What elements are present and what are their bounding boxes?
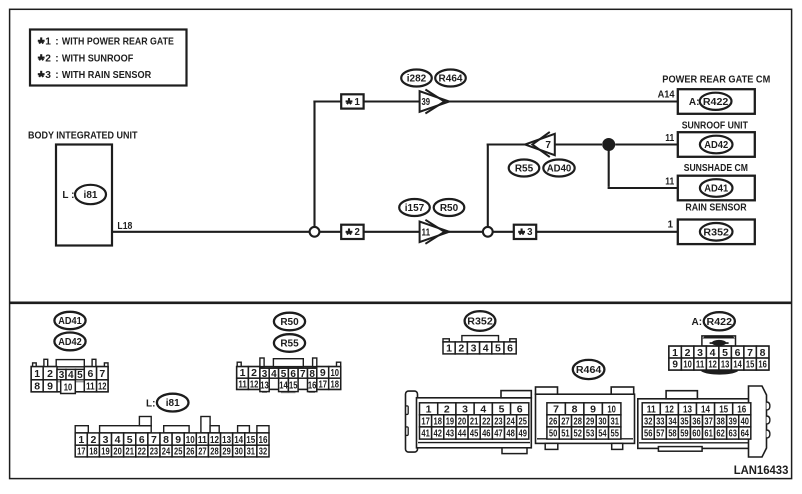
svg-text:5: 5	[127, 434, 133, 446]
svg-text:RAIN SENSOR: RAIN SENSOR	[685, 202, 747, 213]
connector labels R50 / R55 (pinout)	[274, 313, 305, 352]
option box *3	[514, 225, 536, 239]
solder joint (filled dot)	[602, 138, 615, 151]
svg-text:3: 3	[527, 227, 533, 238]
svg-text:2: 2	[444, 404, 450, 416]
svg-text:25: 25	[519, 417, 528, 428]
svg-text:WITH RAIN SENSOR: WITH RAIN SENSOR	[62, 70, 152, 81]
svg-text:5: 5	[495, 343, 501, 355]
wire branch from junction A up to option box *1	[313, 101, 341, 227]
svg-text:AD41: AD41	[704, 184, 728, 195]
svg-text:7: 7	[151, 434, 157, 446]
junction node A (open circle)	[310, 227, 320, 237]
svg-text:32: 32	[259, 447, 268, 458]
R464 block 1 pin row 1 (1-6)	[420, 403, 529, 416]
R50/R55 pin row 1	[237, 367, 341, 380]
AD41/AD42 pin row 1	[31, 367, 108, 382]
wire from gateway 39 to POWER REAR GATE CM pin A14	[449, 90, 678, 102]
svg-text:39: 39	[422, 97, 431, 108]
wire from junction B to option box *3	[493, 231, 514, 233]
svg-text:6: 6	[517, 404, 523, 416]
svg-text:AD40: AD40	[547, 164, 572, 175]
svg-text:29: 29	[222, 447, 231, 458]
svg-text:11: 11	[86, 381, 95, 393]
svg-text:63: 63	[729, 429, 738, 440]
connector label R422 (pinout)	[692, 312, 735, 330]
svg-text:13: 13	[721, 360, 730, 371]
svg-text:22: 22	[482, 417, 491, 428]
svg-text:33: 33	[656, 417, 665, 428]
svg-text:64: 64	[741, 429, 750, 440]
R422 pin row 2 (9-16)	[669, 358, 769, 371]
unit AD41: SUNSHADE CM	[678, 163, 755, 200]
i81 pin row 1 (1-16)	[75, 433, 269, 446]
svg-text:17: 17	[77, 447, 86, 458]
svg-text:R352: R352	[703, 227, 729, 238]
svg-text:5: 5	[722, 347, 728, 359]
R464 block 1 pin row 3 (41-49)	[420, 427, 529, 440]
unit R422: POWER REAR GATE CM	[662, 74, 770, 113]
svg-text:14: 14	[279, 380, 288, 392]
svg-text:19: 19	[101, 447, 110, 458]
wire branch from junction B up to gateway 7	[487, 144, 525, 227]
svg-text:1: 1	[446, 343, 452, 355]
svg-text:21: 21	[126, 447, 135, 458]
svg-text:10: 10	[683, 360, 692, 371]
svg-text:43: 43	[446, 429, 455, 440]
svg-text:6: 6	[735, 347, 741, 359]
svg-text:10: 10	[607, 404, 616, 416]
svg-text:4: 4	[483, 343, 489, 355]
svg-text:14: 14	[701, 404, 710, 416]
wire from gateway 11 to junction B	[449, 231, 483, 233]
svg-text:13: 13	[683, 404, 692, 416]
option box *1	[341, 94, 363, 108]
svg-text:42: 42	[434, 429, 443, 440]
svg-text:34: 34	[668, 417, 677, 428]
svg-text::: :	[55, 37, 58, 48]
svg-text:51: 51	[561, 429, 570, 440]
svg-text:11: 11	[198, 434, 207, 446]
svg-text:24: 24	[506, 417, 515, 428]
svg-text:24: 24	[162, 447, 171, 458]
svg-text:22: 22	[138, 447, 147, 458]
svg-text:28: 28	[210, 447, 219, 458]
connector pinout R352 body	[443, 336, 516, 342]
svg-text:60: 60	[692, 429, 701, 440]
svg-text:5: 5	[499, 404, 505, 416]
svg-text:23: 23	[150, 447, 159, 458]
svg-text:4: 4	[480, 404, 486, 416]
svg-text:i81: i81	[84, 190, 98, 201]
svg-text:12: 12	[250, 379, 259, 391]
svg-text:48: 48	[506, 429, 515, 440]
svg-text:8: 8	[163, 434, 169, 446]
svg-text::: :	[55, 54, 58, 65]
svg-text:7: 7	[99, 368, 105, 380]
svg-text:AD42: AD42	[58, 337, 82, 348]
svg-text:17: 17	[421, 417, 430, 428]
svg-text:i81: i81	[166, 398, 180, 409]
gateway triangle 39	[420, 90, 450, 114]
svg-text:12: 12	[708, 360, 717, 371]
svg-text:37: 37	[704, 417, 713, 428]
wire from option box *3 to RAIN SENSOR pin 1	[536, 220, 678, 232]
svg-text:2: 2	[45, 54, 51, 65]
connector labels R55 / AD40	[509, 160, 575, 177]
svg-text:2: 2	[90, 434, 96, 446]
svg-text:1: 1	[426, 404, 432, 416]
svg-text:R55: R55	[280, 339, 299, 350]
svg-text:1: 1	[34, 368, 40, 380]
svg-text:28: 28	[574, 417, 583, 428]
svg-text:27: 27	[198, 447, 207, 458]
svg-text:1: 1	[667, 220, 673, 231]
unit AD42: SUNROOF UNIT	[678, 121, 755, 157]
option box *2	[341, 225, 363, 239]
wire from joint to SUNROOF UNIT pin 11	[615, 133, 678, 145]
svg-text:56: 56	[644, 429, 653, 440]
svg-text:3: 3	[462, 404, 468, 416]
svg-text:2: 2	[685, 347, 691, 359]
svg-text:14: 14	[234, 434, 243, 446]
svg-text:8: 8	[760, 347, 766, 359]
svg-text:BODY INTEGRATED UNIT: BODY INTEGRATED UNIT	[28, 131, 138, 142]
svg-text:13: 13	[222, 434, 231, 446]
unit R352: RAIN SENSOR	[678, 202, 755, 244]
svg-text:62: 62	[716, 429, 725, 440]
R464 block 2 pin row 3 (50-55)	[547, 427, 621, 440]
svg-text:9: 9	[47, 381, 53, 393]
unit i81: BODY INTEGRATED UNIT box	[28, 131, 138, 246]
svg-text:18: 18	[330, 379, 339, 391]
svg-text:30: 30	[235, 447, 244, 458]
svg-text:L18: L18	[117, 221, 132, 232]
R464 block 1 pin row 2 (17-25)	[420, 415, 529, 428]
R50/R55 pin row 2	[237, 378, 341, 393]
svg-text:4: 4	[271, 369, 277, 380]
svg-text:10: 10	[186, 434, 195, 446]
svg-text:18: 18	[89, 447, 98, 458]
svg-text:11: 11	[696, 360, 705, 371]
svg-text:2: 2	[251, 367, 257, 379]
svg-text:WITH POWER REAR GATE: WITH POWER REAR GATE	[62, 37, 174, 48]
connector labels i157 / R50	[399, 199, 464, 216]
connector label i81 (pinout)	[146, 394, 189, 412]
svg-text:32: 32	[644, 417, 653, 428]
svg-text:20: 20	[458, 417, 467, 428]
wire from junction A to option box *2	[320, 231, 341, 233]
connector pinout R464 shell	[406, 386, 770, 457]
R464 block 3 pin row 1 (11-16)	[642, 403, 751, 416]
gateway triangle 11	[420, 220, 450, 244]
gateway triangle 7 (pointing left)	[525, 132, 555, 157]
svg-text:7: 7	[300, 369, 306, 380]
section divider	[10, 301, 792, 304]
connector label R352 (pinout)	[465, 311, 496, 331]
svg-text:12: 12	[210, 434, 219, 446]
svg-text:40: 40	[741, 417, 750, 428]
svg-text:10: 10	[64, 381, 73, 393]
R464 block 3 pin row 3 (56-64)	[642, 427, 751, 440]
svg-text:8: 8	[34, 381, 40, 393]
svg-text:11: 11	[238, 379, 247, 391]
svg-text:58: 58	[668, 429, 677, 440]
svg-text:3: 3	[103, 434, 109, 446]
svg-text:1: 1	[78, 434, 84, 446]
svg-text:12: 12	[665, 404, 674, 416]
svg-text:i157: i157	[405, 203, 425, 214]
svg-text:31: 31	[611, 417, 620, 428]
svg-text:R50: R50	[280, 317, 299, 328]
svg-text:35: 35	[680, 417, 689, 428]
svg-text:13: 13	[260, 380, 269, 392]
svg-text:47: 47	[494, 429, 503, 440]
svg-text:12: 12	[98, 381, 107, 393]
svg-text:31: 31	[247, 447, 256, 458]
svg-text:9: 9	[590, 404, 596, 416]
wire L18 from i81 to junction A	[112, 221, 309, 232]
connector pinout R50/R55 body	[237, 358, 341, 389]
svg-text:50: 50	[549, 429, 558, 440]
svg-text:R464: R464	[439, 74, 463, 85]
R352 pin row (1-6)	[443, 342, 516, 355]
svg-text:4: 4	[115, 434, 121, 446]
svg-text:A:: A:	[689, 97, 700, 108]
svg-text:16: 16	[737, 404, 746, 416]
svg-text:30: 30	[598, 417, 607, 428]
svg-text:SUNROOF UNIT: SUNROOF UNIT	[682, 121, 748, 132]
connector pinout R422 lock tab	[702, 336, 736, 346]
connector pinout i81 top profile	[75, 417, 269, 433]
svg-text:20: 20	[113, 447, 122, 458]
svg-text:53: 53	[586, 429, 595, 440]
svg-text:6: 6	[87, 368, 93, 380]
svg-text:1: 1	[355, 97, 361, 108]
svg-text:3: 3	[471, 343, 477, 355]
svg-text:25: 25	[174, 447, 183, 458]
svg-text:8: 8	[572, 404, 578, 416]
svg-text:3: 3	[45, 70, 51, 81]
svg-text:29: 29	[586, 417, 595, 428]
connector pinout AD41/AD42 body	[31, 359, 108, 392]
svg-text:39: 39	[729, 417, 738, 428]
svg-text:4: 4	[710, 347, 716, 359]
svg-text:38: 38	[716, 417, 725, 428]
svg-text:LAN16433: LAN16433	[734, 465, 789, 477]
svg-text:6: 6	[139, 434, 145, 446]
svg-text:R422: R422	[703, 97, 729, 108]
svg-text:R422: R422	[707, 317, 733, 328]
legend box: option notes	[30, 30, 187, 86]
svg-text:7: 7	[747, 347, 753, 359]
svg-text:16: 16	[259, 434, 268, 446]
svg-text:15: 15	[289, 380, 298, 392]
wire from gateway 7 to solder joint	[555, 143, 602, 145]
svg-text:L :: L :	[62, 190, 74, 201]
R464 block 2 pin row 1 (7-10)	[547, 403, 621, 416]
svg-text::: :	[55, 70, 58, 81]
wire from option box *2 to gateway 11	[364, 231, 420, 233]
svg-text:41: 41	[421, 429, 430, 440]
svg-text:i282: i282	[407, 74, 427, 85]
svg-text:R352: R352	[467, 317, 493, 328]
svg-text:15: 15	[246, 434, 255, 446]
svg-text:1: 1	[45, 37, 51, 48]
svg-text:17: 17	[319, 379, 328, 391]
svg-text:9: 9	[320, 367, 326, 379]
svg-text:7: 7	[545, 140, 551, 151]
svg-text:23: 23	[494, 417, 503, 428]
svg-text:L:: L:	[146, 398, 155, 409]
svg-text:16: 16	[758, 360, 767, 371]
figure number LAN16433	[734, 465, 789, 477]
svg-text:1: 1	[240, 367, 246, 379]
connector label R464 (pinout)	[573, 360, 605, 379]
svg-text:10: 10	[330, 367, 339, 379]
svg-text:14: 14	[733, 360, 742, 371]
svg-text:11: 11	[647, 404, 656, 416]
connector labels i282 / R464	[401, 70, 466, 87]
svg-text:R55: R55	[515, 164, 534, 175]
svg-text:57: 57	[656, 429, 665, 440]
svg-text:6: 6	[507, 343, 513, 355]
junction node B (open circle)	[483, 227, 493, 237]
svg-text:15: 15	[746, 360, 755, 371]
svg-text:11: 11	[665, 133, 674, 144]
svg-text:AD42: AD42	[704, 140, 728, 151]
svg-text:26: 26	[549, 417, 558, 428]
svg-text:18: 18	[434, 417, 443, 428]
wire from joint down and to SUNSHADE CM pin 11	[608, 145, 678, 189]
svg-text:1: 1	[672, 347, 678, 359]
svg-text:5: 5	[77, 370, 83, 381]
svg-text:44: 44	[458, 429, 467, 440]
R464 block 2 pin row 2 (26-31)	[547, 415, 621, 428]
svg-text:3: 3	[697, 347, 703, 359]
svg-text:2: 2	[355, 227, 360, 238]
AD41/AD42 pin row 2	[31, 380, 108, 394]
svg-text:26: 26	[186, 447, 195, 458]
svg-text:R464: R464	[576, 365, 602, 376]
svg-text:59: 59	[680, 429, 689, 440]
svg-text:16: 16	[308, 380, 317, 392]
svg-text:2: 2	[47, 368, 53, 380]
svg-text:36: 36	[692, 417, 701, 428]
svg-text:9: 9	[672, 360, 678, 371]
svg-text:2: 2	[458, 343, 464, 355]
svg-text:49: 49	[519, 429, 528, 440]
R422 pin row 1 (1-8)	[669, 346, 769, 359]
svg-text:54: 54	[598, 429, 607, 440]
svg-text:55: 55	[611, 429, 620, 440]
svg-text:11: 11	[422, 227, 431, 238]
svg-text:7: 7	[553, 404, 559, 416]
svg-text:A:: A:	[692, 317, 703, 328]
svg-text:AD41: AD41	[58, 316, 82, 327]
svg-text:27: 27	[561, 417, 570, 428]
svg-text:52: 52	[574, 429, 583, 440]
i81 pin row 2 (17-32)	[75, 445, 269, 458]
svg-text:15: 15	[719, 404, 728, 416]
svg-text:A14: A14	[658, 90, 675, 101]
R464 block 3 pin row 2 (32-40)	[642, 415, 751, 428]
svg-text:19: 19	[446, 417, 455, 428]
svg-text:61: 61	[704, 429, 713, 440]
svg-text:SUNSHADE CM: SUNSHADE CM	[684, 163, 748, 174]
wire from option box *1 to gateway 39	[364, 100, 420, 102]
svg-text:POWER REAR GATE CM: POWER REAR GATE CM	[662, 74, 770, 85]
svg-text:9: 9	[175, 434, 181, 446]
svg-text:11: 11	[665, 177, 674, 188]
svg-text:R50: R50	[440, 203, 459, 214]
connector labels AD41 / AD42 (pinout)	[54, 312, 85, 351]
svg-text:21: 21	[470, 417, 479, 428]
svg-text:46: 46	[482, 429, 491, 440]
svg-text:45: 45	[470, 429, 479, 440]
connector pinout R422 body	[669, 346, 769, 375]
svg-text:WITH SUNROOF: WITH SUNROOF	[62, 54, 133, 65]
